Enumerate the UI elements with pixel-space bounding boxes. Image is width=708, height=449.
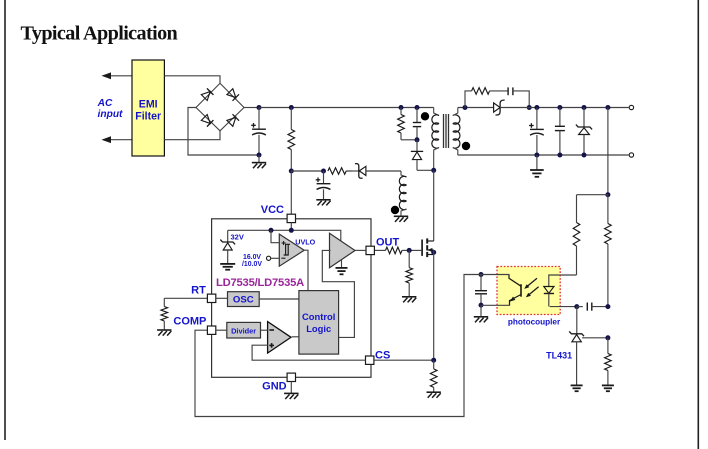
wire UVLO upper input [271, 230, 279, 242]
photocoupler light arrows [524, 278, 538, 297]
ground gate resistor [402, 297, 416, 303]
svg-text:OUT: OUT [376, 236, 400, 248]
ground VCC cap [316, 200, 330, 206]
wire to aux winding [401, 171, 407, 177]
svg-text:EMI: EMI [139, 98, 158, 110]
node divider mid [605, 335, 610, 340]
wire driver output [355, 249, 366, 251]
svg-text:photocoupler: photocoupler [508, 317, 561, 326]
node Cout bottom [534, 153, 539, 158]
wire VCC junction to cap [291, 170, 323, 172]
output zener diode [576, 108, 592, 156]
clamp capacitor [413, 108, 421, 140]
ground output [530, 155, 544, 177]
gate resistor [374, 247, 409, 254]
TL431 [569, 307, 584, 386]
ground opto [474, 305, 488, 322]
AC line bottom wire [102, 136, 133, 143]
pin COMP [173, 315, 215, 334]
compensation capacitor [577, 303, 608, 311]
node CS [431, 358, 436, 363]
Control Logic block [299, 291, 339, 355]
AC input label [97, 98, 123, 120]
AC line top wire [102, 72, 133, 79]
pin RT [191, 285, 216, 303]
output ceramic capacitor [555, 108, 565, 156]
output electrolytic capacitor [529, 108, 544, 156]
TL431 ref wire [582, 337, 608, 339]
pin GND [262, 373, 295, 393]
gate wire [409, 249, 422, 251]
wire comparator plus to CS [252, 345, 365, 360]
bridge diode D4 (bottom-right arm) [227, 114, 239, 126]
wire UVLO output [305, 250, 308, 290]
snubber loop capacitor [508, 87, 529, 107]
zener 32V [220, 230, 235, 264]
wire comparator out [292, 336, 299, 338]
node zener top [582, 105, 587, 110]
wire output rail [500, 107, 629, 109]
wire sense to LED resistor [577, 194, 608, 196]
wire RT to OSC [216, 297, 228, 299]
node clamp RC bottom [415, 137, 420, 142]
EMI filter block [132, 60, 164, 156]
node sec snubber [463, 105, 468, 110]
page border right [697, 0, 699, 449]
svg-text:TL431: TL431 [546, 350, 572, 360]
divider upper resistor [605, 195, 612, 307]
node output diode cathode [527, 105, 532, 110]
svg-text:UVLO: UVLO [295, 238, 315, 247]
VCC rectifier diode (schottky) [346, 164, 401, 179]
ground divider [602, 385, 614, 391]
RT resistor [161, 298, 168, 329]
gate pulldown resistor [406, 250, 413, 296]
wire Divider to comparator [261, 329, 268, 331]
clamp resistor [398, 108, 405, 140]
divider lower resistor [605, 338, 612, 386]
wire Vout sense drop [607, 108, 609, 195]
photocoupler LED [544, 287, 554, 307]
ground TL431 [571, 385, 583, 391]
svg-text:Logic: Logic [306, 323, 331, 334]
wire driver input [322, 250, 354, 337]
MOSFET Q1 [422, 238, 434, 257]
svg-text:AC: AC [97, 98, 113, 109]
wire output bottom rail [458, 154, 629, 156]
UVLO threshold terminal [267, 256, 280, 260]
TL431 label [546, 350, 572, 360]
svg-text:CS: CS [375, 350, 390, 362]
node sense split [605, 192, 610, 197]
bridge rectifier diamond [196, 83, 244, 131]
svg-text:COMP: COMP [173, 315, 206, 327]
wire clamp RC join [401, 139, 417, 141]
label UVLO [295, 238, 315, 247]
wire MOSFET source to CS [433, 250, 435, 360]
clamp diode [411, 140, 423, 171]
node clamp resistor [399, 105, 404, 110]
transformer secondary winding [453, 108, 460, 156]
bridge diode D1 (left-top arm) [201, 88, 213, 100]
node Cout top [534, 105, 539, 110]
IC box LD7535 [212, 219, 371, 377]
wire COMP to photocoupler [195, 275, 510, 417]
UVLO comparator [279, 234, 304, 266]
node TL431 cathode [574, 304, 579, 309]
node C2 bottom [557, 153, 562, 158]
opto filter capacitor [475, 275, 487, 306]
page border left [4, 0, 6, 440]
svg-text:RT: RT [191, 285, 206, 297]
wire EMI to bridge bottom [164, 131, 220, 140]
ground GND pin [284, 382, 298, 400]
node opto collector [479, 272, 484, 277]
ground bulk cap [252, 155, 266, 168]
ground driver [336, 259, 348, 274]
node internal VCC 1 [269, 228, 274, 233]
VCC series resistor [328, 168, 352, 175]
output terminal + [629, 105, 633, 109]
node VCC cap [321, 169, 326, 174]
photocoupler box [497, 267, 560, 315]
ground CS resistor [427, 392, 441, 398]
node rail startup [289, 105, 294, 110]
wire emitter [481, 304, 510, 306]
bridge diode D2 (top-right arm) [227, 89, 239, 101]
wire startup to VCC pin [290, 171, 292, 214]
VCC capacitor [316, 171, 331, 199]
wire internal VCC rail [228, 223, 341, 242]
node bridge DC+ [257, 105, 262, 110]
LED series resistor [573, 195, 580, 275]
wire CS [374, 359, 434, 361]
svg-text:GND: GND [262, 381, 287, 393]
node Vout sense [605, 105, 610, 110]
svg-text:LD7535/LD7535A: LD7535/LD7535A [216, 277, 304, 289]
secondary polarity dot [462, 142, 470, 150]
node zener bottom [582, 153, 587, 158]
aux winding [399, 176, 406, 216]
wire COMP to Divider [216, 329, 227, 331]
svg-text:VCC: VCC [261, 204, 284, 216]
wire to LED anode [549, 275, 577, 287]
OSC block [228, 292, 260, 307]
wire clamp to drain node [417, 169, 434, 171]
svg-text:16.0V: 16.0V [243, 254, 261, 261]
svg-text:Typical Application: Typical Application [21, 22, 178, 44]
label 32V [231, 232, 244, 241]
svg-text:OSC: OSC [233, 295, 254, 306]
node MOSFET source/body [431, 250, 436, 255]
node internal VCC 2 [289, 228, 294, 233]
wire bridge DC+ to main rail [244, 107, 259, 109]
startup resistor [288, 108, 295, 172]
wire bridge DC- to bulk cap bottom [188, 108, 259, 156]
svg-text:/10.0V: /10.0V [242, 261, 262, 268]
driver buffer [330, 233, 356, 268]
pin CS [366, 350, 391, 365]
svg-text:Divider: Divider [231, 327, 256, 336]
pin VCC [261, 204, 296, 223]
wire primary to MOSFET drain [433, 170, 435, 241]
Divider block [227, 322, 261, 338]
svg-text:Filter: Filter [135, 111, 161, 123]
pin OUT [366, 236, 400, 254]
bridge diode D3 (left-bottom arm) [201, 115, 213, 127]
output terminal - [629, 153, 633, 157]
svg-text:32V: 32V [231, 232, 244, 241]
node primary bottom / drain [431, 168, 436, 173]
CS sense resistor [430, 360, 437, 392]
photocoupler label [508, 317, 561, 326]
node VCC junction [289, 169, 294, 174]
ground aux winding [394, 216, 408, 222]
wire RT [164, 297, 207, 299]
svg-text:input: input [98, 109, 123, 120]
node opto emitter gnd [479, 303, 484, 308]
svg-text:Control: Control [302, 311, 335, 322]
snubber loop resistor [465, 88, 508, 108]
node C2 top [557, 105, 562, 110]
node bulk cap bottom [257, 153, 262, 158]
label UVLO thresholds [242, 254, 262, 268]
ground RT resistor [157, 330, 171, 336]
title [21, 22, 178, 44]
wire secondary top rail [458, 107, 494, 109]
wire EMI to bridge top [164, 76, 220, 84]
transformer core [444, 114, 449, 148]
IC label LD7535/LD7535A [216, 277, 304, 289]
node comp cap right [605, 304, 610, 309]
node clamp cap top [415, 105, 420, 110]
wire rail to primary [434, 108, 439, 116]
bulk capacitor [251, 108, 266, 156]
wire main rail [259, 107, 434, 109]
PWM comparator [268, 322, 291, 353]
phototransistor [509, 275, 521, 306]
transformer primary winding [432, 115, 439, 171]
aux winding polarity dot [391, 206, 399, 214]
primary polarity dot [421, 112, 429, 120]
ground zener [220, 264, 235, 270]
output diode (schottky) [494, 100, 505, 115]
wire OSC to logic [259, 298, 299, 300]
node gate [407, 248, 412, 253]
wire LED cathode to TL431 node [550, 306, 577, 308]
